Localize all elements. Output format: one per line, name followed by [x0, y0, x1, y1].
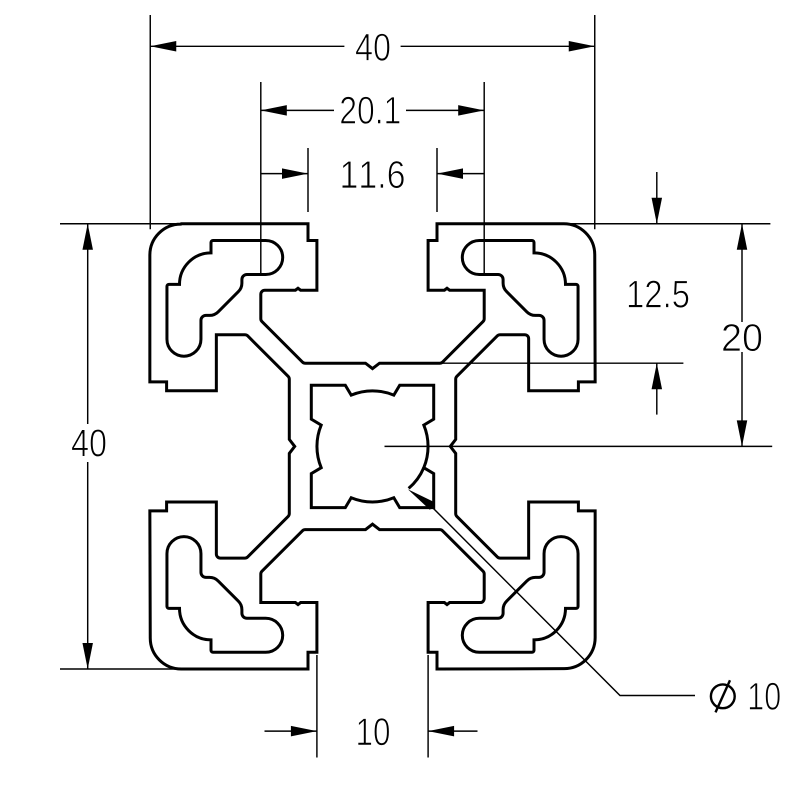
- arrow 20.1 right: [458, 105, 484, 116]
- ext line 20.1 right: [483, 82, 485, 276]
- text 20.1: [341, 97, 400, 125]
- ext line 12.5 bottom: [441, 362, 683, 364]
- arrow 12.5 bottom: [652, 363, 663, 389]
- leader line diameter 10: [424, 499, 695, 696]
- arrow 11.6 left: [282, 168, 308, 179]
- text diameter 10 label: value 10: [750, 683, 781, 711]
- bore arc segment at leader arrow: [409, 468, 424, 489]
- text 40 left: [72, 429, 106, 457]
- text 10: [358, 718, 389, 746]
- dim line 40-top right seg: [401, 45, 595, 47]
- arrow 20 bottom: [737, 420, 748, 446]
- corner cavity bottom-left: [167, 537, 283, 653]
- dim line 10 right tail: [428, 730, 477, 732]
- leader arrowhead: [408, 489, 435, 510]
- ext line 10 right: [427, 655, 429, 758]
- ext line 20.1 left: [260, 82, 262, 276]
- arrow 10 right: [428, 726, 454, 737]
- ext line 20 bottom centerline: [385, 445, 773, 447]
- dim line 20.1 left seg: [261, 109, 334, 111]
- dim line 40-left upper seg: [87, 224, 89, 424]
- dim line 20.1 right seg: [406, 109, 484, 111]
- corner cavity top-right: [462, 241, 578, 357]
- corner cavity bottom-right: [462, 537, 578, 653]
- ext line 40-left top: [60, 223, 181, 225]
- dim line 40-left lower seg: [87, 462, 89, 669]
- text 20: [723, 324, 762, 352]
- ext line 40-left bottom: [60, 668, 181, 670]
- dim line 20 lower seg: [741, 352, 743, 446]
- arrow 10 left: [291, 726, 317, 737]
- arrow 20.1 left: [261, 105, 287, 116]
- ext line 40-top right: [594, 15, 596, 229]
- text 11.6: [342, 161, 404, 189]
- ext line 40-top left: [149, 15, 151, 229]
- text diameter 10 label: diameter symbol: [711, 680, 735, 712]
- ext line 11.6 left: [307, 148, 309, 212]
- dim line 20 upper seg: [741, 224, 743, 322]
- dim line 12.5 upper shaft: [656, 172, 658, 224]
- arrow 40-top left: [150, 41, 176, 52]
- ext line 12.5/20 top: [565, 223, 770, 225]
- dim line 12.5 lower shaft: [656, 363, 658, 414]
- corner cavity top-left: [167, 241, 283, 357]
- text 12.5: [629, 280, 689, 308]
- arrow 20 top: [737, 224, 748, 250]
- dim line 10 left tail: [265, 730, 317, 732]
- center bore cavity (diameter 10 clover): [311, 385, 433, 507]
- ext line 11.6 right: [436, 148, 438, 212]
- arrow 40-left bottom: [82, 643, 93, 669]
- arrow 40-top right: [569, 41, 595, 52]
- ext line 10 left: [316, 655, 318, 758]
- arrow 40-left top: [82, 224, 93, 250]
- dim line 40-top left seg: [150, 45, 344, 47]
- text 40 top: [356, 33, 390, 61]
- profile outer outline with T-slots: [150, 224, 595, 669]
- dim line 11.6 left tail: [261, 173, 308, 175]
- arrow 11.6 right: [437, 168, 463, 179]
- dim line 11.6 right tail: [437, 173, 484, 175]
- arrow 12.5 top: [652, 198, 663, 224]
